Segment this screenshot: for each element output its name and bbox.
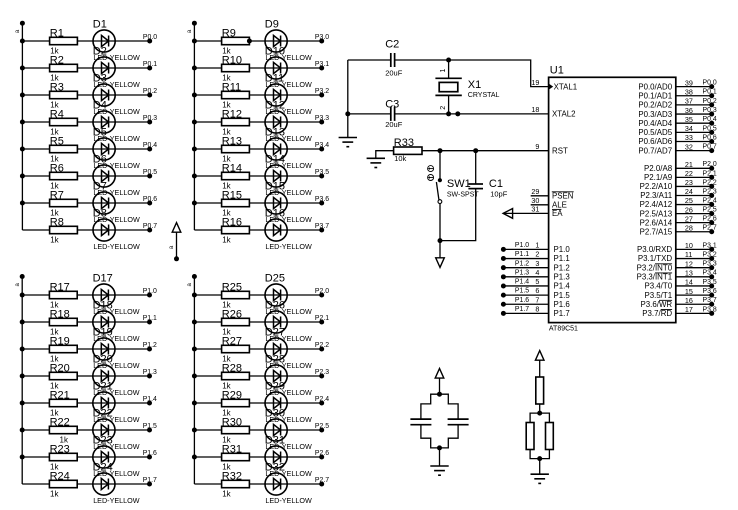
resistor R20 [49,362,77,390]
node P1.1 [143,315,157,325]
pin 38 P0.1/AD1 [638,87,717,100]
node P2.1 [315,315,329,325]
pin 10 P3.0/RXD [637,241,717,254]
wire [22,202,149,204]
wire [22,375,149,377]
wire [194,148,321,150]
LED D25 [265,272,312,316]
svg-text:R33: R33 [394,137,414,149]
svg-text:AT89C51: AT89C51 [549,326,578,333]
svg-text:R16: R16 [222,216,242,228]
resistor R13 [222,135,250,163]
svg-text:D12: D12 [265,99,285,111]
pin 33 P0.6/AD6 [638,133,717,146]
svg-text:P0.1/AD1: P0.1/AD1 [638,91,672,100]
pin 31 EA [503,205,563,219]
wire power bus [21,277,23,485]
capacitor C3 [385,98,403,129]
svg-text:1k: 1k [50,235,59,244]
svg-text:P3.6/WR: P3.6/WR [641,300,673,309]
svg-text:D4: D4 [93,99,107,111]
junction [438,238,443,243]
svg-text:3: 3 [535,259,539,268]
svg-text:D18: D18 [93,299,113,311]
svg-text:P1.3: P1.3 [515,269,529,276]
pin 22 P2.1/A9 [644,169,717,182]
node P2.7 [315,477,329,487]
svg-text:R4: R4 [50,108,64,120]
svg-text:33: 33 [685,133,693,142]
node P3.6 [315,196,329,206]
pin 24 P2.3/A11 [640,187,717,200]
LED D3 [93,72,140,116]
svg-text:P1.6: P1.6 [554,300,571,309]
svg-text:R24: R24 [50,470,70,482]
junction [437,392,442,397]
LED D19 [93,326,140,370]
node P2.6 [315,450,329,460]
wire [540,450,550,459]
svg-text:P1.0: P1.0 [515,242,529,249]
svg-text:29: 29 [531,187,539,196]
wire [22,148,149,150]
wire [530,413,540,422]
resistor R29 [222,389,250,417]
svg-text:1k: 1k [222,235,231,244]
svg-text:LED-YELLOW: LED-YELLOW [265,242,312,251]
wire [194,456,321,458]
resistor R10 [222,54,250,82]
junction [192,293,197,298]
pin 39 P0.0/AD0 [638,78,717,91]
node P3.4 [315,142,329,152]
junction [438,148,443,153]
resistor R15 [222,189,250,217]
wire [22,175,149,177]
junction [20,201,25,206]
svg-text:R9: R9 [222,27,236,39]
wire [194,67,321,69]
junction [192,347,197,352]
svg-text:4: 4 [535,268,539,277]
svg-text:R26: R26 [222,308,242,320]
pin 4 P1.3 [501,268,570,282]
pin 25 P2.4/A12 [640,196,717,209]
svg-text:P2.5/A13: P2.5/A13 [640,209,673,218]
svg-text:5: 5 [535,277,539,286]
ground [339,138,357,147]
svg-text:R1: R1 [50,27,64,39]
switch SW1 [428,166,480,204]
junction [192,401,197,406]
svg-text:R7: R7 [50,189,64,201]
junction [345,111,350,116]
svg-text:R19: R19 [50,335,70,347]
resistor (series) [536,377,544,404]
wire [194,175,321,177]
resistor R21 [49,389,77,417]
svg-text:P3.1/TXD: P3.1/TXD [638,254,673,263]
svg-text:XTAL2: XTAL2 [552,110,576,119]
svg-text:P1.4: P1.4 [515,279,529,286]
svg-text:EA: EA [552,209,563,218]
pin 26 P2.5/A13 [640,205,717,218]
pin 34 P0.5/AD5 [638,124,717,137]
svg-text:28: 28 [685,223,693,232]
svg-text:37: 37 [685,97,693,106]
LED D14 [265,153,312,197]
LED D7 [93,180,140,224]
pin 2 P1.1 [501,250,570,264]
LED D31 [265,434,312,478]
svg-text:D25: D25 [265,272,285,284]
svg-text:PSEN: PSEN [552,191,574,200]
junction [20,66,25,71]
pin 6 P1.5 [501,286,570,300]
node P2.4 [315,396,329,406]
resistor R18 [49,308,77,336]
svg-text:D31: D31 [265,434,285,446]
junction [20,347,25,352]
svg-text:P1.1: P1.1 [554,254,570,263]
node P1.6 [143,450,157,460]
junction [192,93,197,98]
svg-text:35: 35 [685,115,693,124]
node power a (bus top) [15,21,25,33]
LED D4 [93,99,140,142]
capacitor C1 [468,178,507,198]
wire [376,151,394,159]
wire [439,151,441,179]
junction [192,320,197,325]
node P0.4 [143,142,157,152]
junction [20,374,25,379]
svg-text:P3.4/T0: P3.4/T0 [644,282,672,291]
svg-text:R20: R20 [50,362,70,374]
svg-text:P2.2/A10: P2.2/A10 [640,182,673,191]
LED D22 [93,407,140,451]
wire [194,121,321,123]
svg-text:R8: R8 [50,216,64,228]
wire [440,425,459,448]
resistor R31 [222,443,250,471]
svg-text:D5: D5 [93,126,107,138]
svg-text:P1.2: P1.2 [554,263,570,272]
LED D12 [265,99,312,142]
svg-text:R15: R15 [222,189,242,201]
wire [530,450,540,459]
junction [20,120,25,125]
svg-text:D6: D6 [93,153,107,165]
svg-text:D13: D13 [265,126,285,138]
svg-text:SW1: SW1 [447,178,471,190]
node power a (bus top) [15,274,25,286]
svg-text:D23: D23 [93,434,113,446]
junction [192,39,197,44]
pin 7 P1.6 [501,295,570,309]
junction [537,456,542,461]
svg-text:34: 34 [685,124,693,133]
node power a (bus top) [187,21,197,33]
svg-text:D1: D1 [93,18,107,30]
svg-text:D22: D22 [93,407,113,419]
svg-text:P2.4/A12: P2.4/A12 [640,200,672,209]
LED D20 [93,353,140,397]
resistor R12 [222,108,250,136]
pin 35 P0.4/AD4 [638,115,717,128]
svg-text:P0.7/AD7: P0.7/AD7 [638,146,672,155]
svg-text:P1.3: P1.3 [554,273,571,282]
junction [455,111,460,116]
LED D13 [265,126,312,170]
junction [446,58,451,63]
svg-text:LED-YELLOW: LED-YELLOW [93,242,140,251]
svg-text:C3: C3 [385,98,399,110]
svg-text:XTAL1: XTAL1 [554,82,578,91]
junction [192,428,197,433]
junction [192,147,197,152]
svg-text:R30: R30 [222,416,242,428]
LED D18 [93,299,140,343]
node P0.6 [143,196,157,206]
node P0.3 [143,115,157,125]
svg-text:38: 38 [685,87,693,96]
svg-text:D24: D24 [93,461,113,473]
LED D29 [265,380,312,424]
svg-text:R31: R31 [222,443,242,455]
junction [446,111,451,116]
svg-text:15: 15 [685,287,693,296]
junction [192,374,197,379]
junction [247,39,252,44]
svg-text:R2: R2 [50,54,64,66]
svg-text:1k: 1k [50,489,59,498]
svg-text:D9: D9 [265,18,279,30]
node P1.3 [143,369,157,379]
svg-text:13: 13 [685,269,693,278]
crystal X1 [435,60,499,114]
LED D28 [265,353,312,397]
resistor R4 [50,108,78,136]
junction [537,411,542,416]
svg-text:36: 36 [685,106,693,115]
pin 5 P1.4 [501,277,570,291]
node P2.2 [315,342,329,352]
wire [22,402,149,404]
node P3.0 [315,34,329,44]
pin 13 P3.3/INT1 [637,269,717,282]
svg-text:P1.2: P1.2 [515,260,529,267]
svg-text:31: 31 [531,205,539,214]
svg-text:R28: R28 [222,362,242,374]
junction [192,201,197,206]
svg-text:6: 6 [535,286,539,295]
junction [20,93,25,98]
svg-text:X1: X1 [468,79,481,91]
IC U1 AT89C51 body [549,65,676,333]
svg-text:D32: D32 [265,461,285,473]
junction [20,174,25,179]
wire left bus [347,60,349,138]
junction [20,39,25,44]
wire power bus [21,23,23,230]
junction [473,148,478,153]
svg-text:D2: D2 [93,45,107,57]
svg-text:P0.0/AD0: P0.0/AD0 [638,82,672,91]
svg-text:D16: D16 [265,207,285,219]
svg-text:D11: D11 [265,72,284,84]
svg-text:D7: D7 [93,180,107,192]
wire XTAL1 net [348,60,549,87]
svg-text:R5: R5 [50,135,64,147]
LED D5 [93,126,140,170]
svg-text:P3.3/INT1: P3.3/INT1 [637,273,673,282]
pin 27 P2.6/A14 [640,214,717,227]
svg-text:32: 32 [685,142,693,151]
resistor R14 [222,162,250,190]
resistor R19 [49,335,77,363]
wire [194,40,321,42]
resistor R24 [49,470,77,498]
resistor R22 [49,416,77,444]
wire [421,394,440,419]
ground [367,158,385,167]
power flag [435,369,444,395]
junction [20,147,25,152]
svg-text:LED-YELLOW: LED-YELLOW [93,496,140,505]
svg-text:D8: D8 [93,207,107,219]
LED D8 [93,207,140,251]
resistor R26 [222,308,250,336]
svg-text:10k: 10k [394,154,406,163]
svg-text:SW-SPST: SW-SPST [447,191,479,198]
svg-text:23: 23 [685,178,693,187]
svg-text:9: 9 [535,142,539,151]
svg-text:R13: R13 [222,135,242,147]
svg-text:P1.5: P1.5 [554,291,571,300]
svg-text:D17: D17 [93,272,113,284]
resistor R7 [50,189,78,217]
wire RST net [422,150,549,152]
pin 16 P3.6/WR [641,296,717,309]
svg-text:RST: RST [552,146,568,155]
svg-text:R17: R17 [50,281,70,293]
capacitor C2 [385,39,403,78]
pin 19 XTAL1 [531,78,577,92]
LED D21 [93,380,140,424]
wire [194,429,321,431]
LED D23 [93,434,140,478]
node P3.2 [315,88,329,98]
capacitor (right) [448,419,469,425]
svg-text:7: 7 [535,295,539,304]
junction [192,174,197,179]
svg-text:CRYSTAL: CRYSTAL [468,92,500,99]
svg-text:26: 26 [685,205,693,214]
node P0.7 [143,223,157,233]
wire [194,348,321,350]
svg-text:R23: R23 [50,443,70,455]
node P0.1 [143,61,157,71]
svg-text:P2.1/A9: P2.1/A9 [644,173,673,182]
svg-text:P0.2/AD2: P0.2/AD2 [638,101,672,110]
pin 12 P3.2/INT0 [637,259,717,272]
svg-text:8: 8 [535,304,539,313]
LED D26 [265,299,312,343]
LED D11 [265,72,312,116]
svg-text:2: 2 [440,106,447,110]
svg-text:D3: D3 [93,72,107,84]
LED D17 [93,272,140,316]
svg-text:D28: D28 [265,353,285,365]
svg-text:19: 19 [531,78,539,87]
LED D9 [265,18,312,62]
LED D6 [93,153,140,197]
svg-text:P2.6/A14: P2.6/A14 [640,218,673,227]
capacitor (left) [410,419,431,425]
svg-text:D27: D27 [265,326,285,338]
resistor R5 [50,135,78,163]
LED D1 [93,18,140,62]
junction [192,455,197,460]
resistor R16 [222,216,250,244]
node P3.5 [315,169,329,179]
pin 29 PSEN [531,187,574,201]
svg-text:P1.5: P1.5 [515,288,529,295]
pin 32 P0.7/AD7 [638,142,717,155]
LED D30 [265,407,312,451]
resistor R2 [50,54,78,82]
svg-text:R29: R29 [222,389,242,401]
wire [439,203,441,240]
pin 9 RST [535,142,568,156]
svg-text:R6: R6 [50,162,64,174]
svg-text:R21: R21 [50,389,70,401]
svg-text:P3.7/RD: P3.7/RD [642,309,672,318]
pin 3 P1.2 [501,259,570,273]
wire [421,425,440,448]
junction [192,120,197,125]
wire [539,404,541,413]
svg-text:D19: D19 [93,326,113,338]
svg-text:20uF: 20uF [385,69,403,78]
svg-text:10pF: 10pF [490,189,508,198]
wire [194,229,321,231]
wire [439,448,441,466]
wire [194,321,321,323]
pin 21 P2.0/A8 [644,160,717,173]
svg-text:R14: R14 [222,162,242,174]
resistor R23 [49,443,77,471]
svg-text:P1.7: P1.7 [515,306,529,313]
resistor R9 [222,27,250,55]
wire [440,394,459,419]
svg-text:P0.6/AD6: P0.6/AD6 [638,137,672,146]
pin 30 ALE [531,196,567,210]
svg-text:P1.1: P1.1 [515,251,529,258]
pin 36 P0.3/AD3 [638,106,717,119]
svg-text:P3.2/INT0: P3.2/INT0 [637,263,673,272]
junction [192,66,197,71]
node power a (bus top) [187,274,197,286]
LED D10 [265,45,312,89]
wire [22,229,149,231]
wire power bus [193,277,195,485]
svg-text:P2.7/A15: P2.7/A15 [640,227,673,236]
svg-text:C2: C2 [385,39,399,51]
svg-text:R10: R10 [222,54,242,66]
wire [22,121,149,123]
